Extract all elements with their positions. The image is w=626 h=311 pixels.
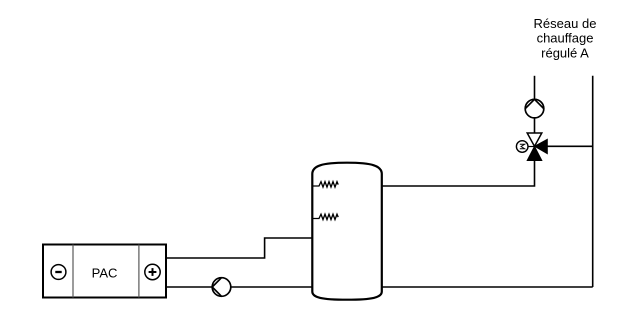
svg-text:Réseau de: Réseau de	[534, 16, 597, 31]
valve V1 right port (filled)	[535, 139, 548, 153]
PAC box (heat pump)	[43, 245, 166, 298]
wire: return riser (right vertical)	[592, 76, 594, 287]
3-way mixing valve V1: top open port	[527, 133, 542, 146]
label: Réseau de chauffage régulé A	[534, 16, 597, 60]
plus terminal	[145, 264, 160, 279]
PAC divider left	[72, 245, 74, 298]
svg-text:régulé A: régulé A	[541, 45, 589, 60]
svg-text:chauffage: chauffage	[537, 31, 594, 46]
PAC divider right	[138, 245, 140, 298]
pump P1 (charge pump, pointing left)	[212, 278, 231, 297]
wire: PAC bottom to tank bottom-left (through pump P1)	[166, 286, 313, 288]
sensor S2 (lower zigzag in tank)	[313, 214, 338, 219]
wire: valve right port to return riser	[535, 145, 593, 147]
pump P2 (circuit A pump, pointing up)	[525, 99, 544, 118]
wire: tank upper-right outlet to valve bottom port	[382, 146, 535, 186]
valve V1 bottom port (filled)	[527, 146, 542, 160]
buffer tank	[312, 163, 382, 300]
wire: supply riser through pump P2 and valve (vertical)	[534, 76, 536, 147]
wire: PAC top outlet to tank mid-left inlet	[166, 238, 313, 258]
wire: return bottom horizontal to tank lower-right	[382, 286, 593, 288]
svg-text:PAC: PAC	[92, 266, 118, 281]
sensor S1 (upper zigzag in tank)	[313, 182, 338, 187]
minus terminal	[51, 265, 66, 280]
valve actuator M (motor)	[516, 141, 534, 153]
